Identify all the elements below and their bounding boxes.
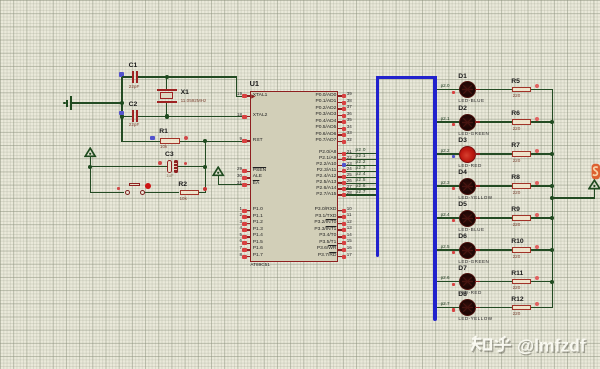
pin 21 square	[342, 152, 346, 156]
pin 30 number	[237, 174, 242, 179]
pin 3 square	[242, 222, 246, 226]
pin 28 number	[347, 191, 352, 196]
pin 38 P0.1 right	[338, 102, 341, 104]
pin 3 P1.2 left	[247, 223, 250, 225]
label R1	[159, 129, 168, 136]
resistor R1	[160, 138, 180, 143]
pin 23 square	[342, 163, 346, 167]
pin name P0.3	[315, 113, 336, 118]
net label p2.5 right	[441, 245, 450, 250]
LED D4	[459, 178, 476, 195]
bus horizontal top segment	[376, 76, 437, 80]
pin 6 number	[239, 239, 242, 244]
wire D2 to R6	[480, 121, 512, 122]
wire right rail vertical	[552, 90, 553, 308]
label U1	[250, 80, 259, 87]
marker R8 red	[535, 181, 539, 185]
value R1 10k	[160, 145, 167, 150]
wire D4 to R8	[480, 185, 512, 186]
capacitor C3	[167, 160, 172, 173]
junction C2 rail	[120, 114, 124, 118]
pin 13 square	[342, 228, 346, 232]
pin 30 square	[242, 176, 246, 180]
pin 1 square	[242, 209, 246, 213]
label R11	[511, 271, 523, 278]
wire left rail vertical	[121, 76, 122, 142]
marker D7	[452, 283, 456, 286]
pin name P0.4	[315, 120, 336, 125]
pin 27 square	[342, 187, 346, 191]
pin 26 number	[347, 179, 352, 184]
wire D8 to R12	[480, 307, 512, 308]
marker R10 red	[535, 245, 539, 249]
wire mid vertical	[205, 141, 206, 192]
label R10	[511, 239, 523, 246]
value R11 220	[513, 286, 521, 291]
pin 27 P2.6 right	[338, 188, 341, 190]
net label p2.1 left	[356, 154, 366, 159]
marker R12 red	[535, 302, 539, 306]
pin 35 P0.4 right	[338, 121, 341, 123]
pin 34 P0.5 right	[338, 128, 341, 130]
pin 5 number	[239, 233, 242, 238]
pin 18 number	[237, 113, 242, 118]
net label p2.3 right	[441, 181, 450, 186]
marker D6	[452, 251, 456, 254]
net label p2.0 left	[356, 148, 366, 153]
wire C3 left	[90, 166, 166, 167]
label D1	[458, 74, 467, 81]
label R7	[511, 143, 520, 150]
label LED-YELLOW	[458, 196, 492, 201]
pin name P1.2	[253, 221, 263, 226]
wire P2.2 to bus	[346, 165, 376, 166]
pin name P3.1	[315, 215, 336, 220]
wire R10 to rail	[531, 249, 553, 250]
pin 19 square	[242, 94, 246, 98]
pin 26 P2.5 right	[338, 182, 341, 184]
pin 5 P1.4 left	[247, 236, 250, 238]
pin 15 square	[342, 241, 346, 245]
wire D7 to R11	[480, 281, 512, 282]
label R9	[511, 207, 520, 214]
wire bus to D3	[437, 153, 459, 154]
marker D4	[452, 187, 456, 190]
wire C2 left	[122, 116, 132, 117]
wire X1 stem bottom	[166, 103, 167, 118]
value R8 220	[513, 191, 521, 196]
pin 16 number	[347, 246, 352, 251]
pin name P0.0	[315, 94, 336, 99]
wire arrow1 stem	[90, 157, 91, 194]
label LED-GREEN	[458, 260, 489, 265]
pin 32 number	[347, 138, 352, 143]
net label p2.2 right	[441, 149, 450, 154]
wire R7 to rail	[531, 153, 553, 154]
LED D3	[459, 146, 476, 163]
wire P2.4 to bus	[346, 177, 376, 178]
label R2	[178, 182, 187, 189]
power symbol right	[588, 179, 600, 190]
wire R1 to RST	[180, 141, 242, 142]
pin 14 square	[342, 235, 346, 239]
net label p2.7 right	[441, 302, 450, 307]
marker D3	[452, 155, 456, 158]
ground	[70, 96, 72, 109]
pin 8 P1.7 left	[247, 256, 250, 258]
wire C3 right	[178, 166, 204, 167]
marker button red	[117, 187, 120, 190]
lead D1 right	[475, 89, 480, 90]
pin 23 P2.2 right	[338, 165, 341, 167]
pin 21 number	[347, 150, 352, 155]
wire D3 to R7	[480, 153, 512, 154]
wire R1 left	[122, 141, 160, 142]
lead D5 right	[475, 217, 480, 218]
value C2 22pF	[129, 123, 139, 128]
value R5 220	[513, 94, 521, 99]
pin 7 square	[242, 248, 246, 252]
lead D3 right	[475, 153, 480, 154]
junction rail D4	[550, 184, 554, 188]
pin 14 P3.4 right	[338, 236, 341, 238]
label C3	[165, 152, 174, 159]
value C3 1uF	[166, 174, 173, 178]
marker R9 red	[535, 213, 539, 217]
pin 11 P3.1 right	[338, 216, 341, 218]
pin 37 square	[342, 107, 346, 111]
label D3	[458, 138, 467, 145]
pin 29 square	[242, 169, 246, 173]
pin name P0.7	[315, 139, 336, 144]
marker R11 red	[535, 276, 539, 280]
pin 23 number	[347, 162, 352, 167]
marker R6 red	[535, 117, 539, 121]
wire R6 to rail	[531, 121, 553, 122]
wire R11 to rail	[531, 281, 553, 282]
pin 6 P1.5 left	[247, 243, 250, 245]
junction rail D5	[550, 216, 554, 220]
junction rail vcc branch	[550, 196, 554, 200]
marker C3 left red	[158, 161, 162, 165]
wire R12 to rail	[531, 307, 553, 308]
junction arrow1 C3	[88, 165, 92, 169]
op chip U1 AT89C51 body	[250, 91, 339, 262]
marker R7 red	[535, 149, 539, 153]
lead D4 right	[475, 185, 480, 186]
pin 24 number	[347, 167, 352, 172]
wire C2 to XTAL2	[138, 116, 242, 117]
label D2	[458, 106, 467, 113]
value C1 22pF	[129, 85, 139, 90]
pin 10 square	[342, 209, 346, 213]
pin name P1.5	[253, 241, 263, 246]
pin 31 square	[242, 183, 246, 187]
marker R2 pin red	[203, 187, 207, 191]
pin name P3.6	[317, 247, 337, 252]
pin 37 number	[347, 105, 352, 110]
pin 12 P3.2 right	[338, 223, 341, 225]
pin 30 ALE left	[247, 177, 250, 179]
pin name P1.1	[253, 215, 263, 220]
net label p2.6 left	[356, 184, 366, 189]
wire P2.3 to bus	[346, 171, 376, 172]
pin 31 EA left	[247, 184, 250, 186]
push button	[129, 183, 140, 186]
pin 4 P1.3 left	[247, 229, 250, 231]
pin name ALE	[253, 175, 262, 180]
net label p2.0 right	[441, 84, 450, 89]
pin 22 P2.1 right	[338, 159, 341, 161]
pin name P3.4	[319, 234, 336, 239]
pin 5 square	[242, 235, 246, 239]
pin 18 square	[242, 115, 246, 119]
wire P2.0 to bus	[346, 153, 376, 154]
pin 15 number	[347, 239, 352, 244]
marker R1 red	[184, 136, 188, 140]
resistor R8	[512, 183, 531, 188]
pin 8 number	[239, 253, 242, 258]
value R12 220	[513, 312, 521, 317]
capacitor C2	[132, 110, 134, 122]
LED D8	[459, 299, 476, 316]
wire bus to D4	[437, 185, 459, 186]
wire top to chip corner	[167, 76, 237, 77]
pin name P3.7	[318, 254, 337, 259]
wire arrow2 to EA	[218, 184, 242, 185]
pin 3 number	[239, 220, 242, 225]
pin 22 number	[347, 156, 352, 161]
wire C1 right	[138, 76, 167, 77]
pin 34 number	[347, 125, 352, 130]
pin name P2.7	[316, 193, 336, 198]
pin name P0.1	[315, 100, 336, 105]
pin 39 P0.0 right	[338, 95, 341, 97]
terminal C2 blue	[119, 111, 124, 116]
net label p2.3 left	[356, 166, 366, 171]
value X1 freq	[181, 99, 207, 104]
pin name P2.0	[319, 151, 336, 156]
wire bus to D1	[437, 89, 459, 90]
net label p2.4 left	[356, 172, 366, 177]
label R6	[511, 111, 520, 118]
label C1	[129, 63, 138, 70]
value R7 220	[513, 159, 521, 164]
label X1	[181, 90, 189, 97]
pin name XTAL1	[253, 94, 268, 99]
orange watermark glyph	[591, 163, 600, 180]
pin 15 P3.5 right	[338, 243, 341, 245]
label D8	[458, 292, 467, 299]
bus vertical right segment	[433, 76, 437, 321]
pin 13 P3.3 right	[338, 229, 341, 231]
pin 17 P3.7 right	[338, 256, 341, 258]
pin 26 square	[342, 181, 346, 185]
marker C3 right red	[184, 162, 188, 166]
wire D5 to R9	[480, 217, 512, 218]
pin 2 square	[242, 215, 246, 219]
resistor R2	[180, 190, 200, 195]
pin 6 square	[242, 241, 246, 245]
pin 7 number	[239, 246, 242, 251]
pin name P1.0	[253, 208, 263, 213]
label R8	[511, 175, 520, 182]
pin 1 number	[239, 207, 242, 212]
pin name P3.2	[314, 221, 336, 226]
pin 10 number	[347, 207, 352, 212]
pin 36 number	[347, 112, 352, 117]
net label p2.6 right	[441, 276, 450, 281]
pin 4 number	[239, 226, 242, 231]
value R9 220	[513, 223, 521, 228]
pin name P1.3	[253, 228, 263, 233]
value R2 10k	[180, 197, 187, 202]
pin 33 square	[342, 133, 346, 137]
resistor R10	[512, 247, 531, 252]
pin name P1.6	[253, 247, 263, 252]
net label p2.1 right	[441, 117, 450, 122]
wire P2.7 to bus	[346, 194, 376, 195]
pin 36 P0.3 right	[338, 115, 341, 117]
LED D7	[459, 273, 476, 290]
resistor R5	[512, 87, 531, 92]
pin name RST	[253, 139, 263, 144]
marker D1	[452, 91, 456, 94]
button actuator red dot	[145, 183, 151, 189]
wire R5 to rail	[531, 89, 553, 90]
junction rail D6	[550, 248, 554, 252]
pin 17 square	[342, 255, 346, 259]
pin 35 square	[342, 120, 346, 124]
LED D5	[459, 210, 476, 227]
label R5	[511, 79, 520, 86]
net label p2.5 left	[356, 178, 366, 183]
pin 28 square	[342, 193, 346, 197]
pin 11 square	[342, 215, 346, 219]
pin 2 number	[239, 213, 242, 218]
wire bus to D8	[437, 307, 459, 308]
pin 37 P0.2 right	[338, 108, 341, 110]
pin 9 RST left	[247, 140, 250, 142]
resistor R9	[512, 215, 531, 220]
net label p2.7 left	[356, 190, 366, 195]
pin 19 XTAL1 left	[247, 95, 250, 97]
wire bus to D7	[437, 281, 459, 282]
value R6 220	[513, 127, 521, 132]
LED D2	[459, 114, 476, 131]
pin 33 P0.6 right	[338, 134, 341, 136]
pin name P0.2	[315, 107, 336, 112]
wire P2.5 to bus	[346, 183, 376, 184]
pin 35 number	[347, 118, 352, 123]
pin name XTAL2	[253, 114, 268, 119]
junction X1 top	[165, 75, 169, 79]
terminal R1 blue	[150, 136, 155, 141]
pin 39 number	[347, 92, 352, 97]
pin 8 square	[242, 255, 246, 259]
pin 19 number	[237, 92, 242, 97]
resistor R7	[512, 151, 531, 156]
pin 2 P1.1 left	[247, 216, 250, 218]
resistor R12	[512, 305, 531, 310]
pin 7 P1.6 left	[247, 249, 250, 251]
pin name P2.6	[316, 187, 336, 192]
net label p2.2 left	[356, 160, 366, 165]
pin 25 P2.4 right	[338, 176, 341, 178]
label LED-RED	[458, 291, 481, 296]
wire bus to D5	[437, 217, 459, 218]
pin name P2.2	[316, 163, 336, 168]
wire vcc stem	[594, 189, 595, 198]
pin 9 number	[239, 137, 242, 142]
label LED-YELLOW	[458, 317, 492, 322]
pin 10 P3.0 right	[338, 210, 341, 212]
wire P2.1 to bus	[346, 159, 376, 160]
wire C1 left	[122, 76, 132, 77]
label R12	[511, 297, 523, 304]
pin 38 square	[342, 101, 346, 105]
wire gnd to left rail	[72, 102, 123, 103]
junction X1 bottom	[165, 114, 169, 118]
label LED-BLUE	[458, 228, 484, 233]
pin name P3.5	[319, 241, 336, 246]
lead D8 right	[475, 307, 480, 308]
junction gnd rail	[120, 101, 124, 105]
pin 22 square	[342, 157, 346, 161]
pin name P1.7	[253, 254, 263, 259]
wire R9 to rail	[531, 217, 553, 218]
pin name P3.3	[314, 228, 336, 233]
wire button to R2	[145, 192, 179, 193]
pin name PSEN	[253, 169, 266, 174]
pin name P2.4	[316, 175, 336, 180]
pin 25 square	[342, 175, 346, 179]
capacitor C1	[132, 71, 134, 83]
pin 1 P1.0 left	[247, 210, 250, 212]
pin name P2.5	[316, 181, 336, 186]
wire into XTAL1	[236, 96, 242, 97]
junction rail D7	[550, 280, 554, 284]
junction rail D3	[550, 152, 554, 156]
pin name P2.3	[317, 169, 337, 174]
pin name P2.1	[319, 157, 336, 162]
label D5	[458, 202, 467, 209]
junction rail D2	[550, 120, 554, 124]
wire D1 to R5	[480, 89, 512, 90]
pin name P1.4	[253, 234, 263, 239]
lead D2 right	[475, 121, 480, 122]
terminal C1 blue	[119, 72, 124, 77]
pin 32 P0.7 right	[338, 141, 341, 143]
junction C3 node	[203, 165, 207, 169]
wire rail to vcc	[552, 197, 595, 198]
label LED-RED	[458, 164, 481, 169]
pin 24 square	[342, 169, 346, 173]
pin 33 number	[347, 131, 352, 136]
net label p2.4 right	[441, 213, 450, 218]
lead D6 right	[475, 249, 480, 250]
pin 28 P2.7 right	[338, 194, 341, 196]
pin 9 square	[242, 139, 246, 143]
pin 38 number	[347, 99, 352, 104]
pin 16 P3.6 right	[338, 249, 341, 251]
pin 34 square	[342, 127, 346, 131]
pin 25 number	[347, 173, 352, 178]
label LED-BLUE	[458, 99, 484, 104]
pin name P0.6	[315, 133, 336, 138]
pin 18 XTAL2 left	[247, 116, 250, 118]
pin 29 PSEN left	[247, 171, 250, 173]
